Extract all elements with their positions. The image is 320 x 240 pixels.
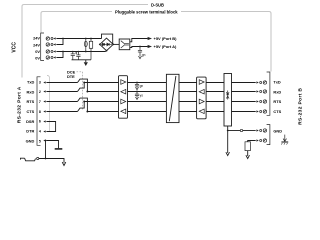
wire +5V Port A output — [130, 47, 148, 48]
switch S1b RTS/CTS crossover — [78, 98, 88, 111]
wire TxD opto to transformer — [128, 82, 167, 84]
wire 0V-2 jumper — [56, 52, 63, 58]
wire bridge to DC/DC — [113, 43, 119, 45]
wire 0V rail — [56, 51, 105, 53]
contact pin 3 — [43, 81, 45, 83]
arrow +5V Port A — [148, 45, 152, 48]
svg-text:gn: gn — [142, 53, 146, 57]
svg-text:8: 8 — [39, 110, 41, 114]
wire RTS transformer to driver — [179, 101, 197, 103]
buffer triangle U3.3 — [199, 99, 204, 104]
earth bar port A — [55, 148, 63, 150]
svg-text:2: 2 — [39, 90, 41, 94]
svg-text:7: 7 — [39, 100, 41, 104]
wire CTS opto to transformer — [128, 111, 167, 113]
contact pin 2 — [43, 90, 45, 92]
wire DSR jumper — [46, 122, 55, 132]
contact arrow GND port B — [256, 129, 258, 131]
node switch junction — [45, 158, 47, 160]
svg-text:GND: GND — [273, 128, 282, 133]
svg-text:D-SUB: D-SUB — [151, 3, 164, 8]
optocoupler block U2 port A — [119, 76, 128, 119]
node switch out TxD — [83, 82, 85, 84]
buffer triangle U2.4 — [121, 109, 126, 114]
wire GND port B from surge block — [228, 130, 256, 132]
wire CTS switch to optocoupler — [87, 111, 118, 113]
wire RTS pin to switch — [46, 101, 77, 103]
contact arrow 24V-2 — [53, 43, 55, 45]
svg-text:RS-232 Port B: RS-232 Port B — [297, 88, 303, 125]
svg-text:5: 5 — [39, 139, 41, 143]
bracket port B ground group — [267, 125, 270, 145]
DC/DC converter U1 — [119, 39, 130, 50]
svg-text:0V: 0V — [35, 56, 40, 61]
driver block U3 port B — [197, 77, 207, 119]
svg-text:RTS: RTS — [273, 99, 281, 104]
wire RxD transformer to driver — [179, 91, 197, 93]
FE arrow below varistor — [246, 155, 250, 158]
svg-text:DTR: DTR — [26, 129, 34, 134]
svg-text:gn: gn — [140, 84, 144, 88]
FE arrow bottom left — [62, 162, 66, 165]
fuse F1 — [84, 39, 87, 52]
terminal TxD port B — [260, 81, 267, 84]
varistor box to FE — [245, 142, 250, 151]
svg-text:4: 4 — [39, 130, 41, 134]
node 24V join — [62, 38, 64, 40]
node bridge bottom vertex — [106, 50, 108, 52]
contact pin 6 — [43, 120, 45, 122]
wire RTS driver to surge block — [206, 101, 224, 103]
contact pin 7 — [43, 100, 45, 102]
shield line port A — [47, 75, 50, 131]
bracket D-SUB port A — [37, 77, 41, 146]
buffer triangle U2.2 — [121, 89, 126, 94]
wire RxD switch to optocoupler — [87, 91, 118, 93]
transformer isolation barrier T1 — [166, 74, 179, 122]
node switch out RTS — [83, 101, 85, 103]
contact arrow 0V-2 — [53, 56, 55, 58]
buffer triangle U3.2 — [199, 89, 204, 94]
buffer triangle U2.1 — [121, 80, 126, 85]
leader line D-SUB — [22, 5, 148, 78]
diode D2 inside bridge — [107, 43, 109, 46]
buffer triangle U3.4 — [199, 109, 204, 114]
svg-text:TxD: TxD — [273, 80, 281, 85]
suppressor symbol inside U4 — [226, 91, 229, 100]
ground arrow power section — [85, 60, 87, 62]
wire RxD opto to transformer — [128, 91, 167, 93]
diode D1 inside bridge — [101, 43, 112, 46]
wire FE terminal port B — [248, 141, 256, 142]
svg-text:+5V (Port B): +5V (Port B) — [154, 36, 178, 41]
node switch out RxD — [86, 91, 88, 93]
terminal RTS port B — [260, 100, 267, 103]
svg-text:yo: yo — [140, 94, 144, 98]
wire TxD pin to switch — [46, 82, 77, 84]
connector circle on GND wire — [240, 129, 242, 131]
buffer triangle U2.3 — [121, 99, 126, 104]
LED RD yellow — [136, 91, 138, 93]
svg-text:DTE: DTE — [67, 74, 75, 79]
surge protection block U4 — [224, 74, 232, 127]
svg-text:DSR: DSR — [26, 119, 34, 124]
switch S1a TxD/RxD crossover — [78, 79, 88, 91]
svg-text:GND: GND — [26, 138, 35, 143]
buffer triangle U3.1 — [199, 80, 204, 85]
node bridge left vertex — [99, 44, 101, 46]
dashed mechanical link DCE/DTE switch — [77, 72, 83, 110]
wire TxD driver to surge block — [206, 82, 224, 84]
bracket power terminal group — [41, 33, 44, 61]
terminal 24V-1 — [46, 37, 53, 40]
wire GND port A — [46, 141, 58, 149]
svg-text:RxD: RxD — [273, 89, 281, 94]
wire FE bar — [72, 59, 92, 61]
svg-text:VCC: VCC — [11, 42, 17, 53]
wire RxD driver to surge block — [206, 91, 224, 93]
capacitor C1 to FE — [71, 52, 75, 60]
LED TD green — [136, 82, 138, 84]
wire RxD surge to terminal — [232, 91, 256, 93]
node C2 top — [78, 51, 80, 53]
wire +5V Port B output — [130, 39, 148, 42]
contact arrow RTS port B — [256, 100, 258, 102]
svg-text:Pluggable screw terminal block: Pluggable screw terminal block — [115, 9, 178, 14]
node switch out CTS — [86, 111, 88, 113]
node resistor top — [90, 38, 92, 40]
wire switch to FE arrow — [39, 159, 64, 163]
node bridge right vertex — [112, 44, 114, 46]
node GND switch tap — [45, 140, 47, 142]
terminal RxD port B — [260, 90, 267, 93]
contact arrow RxD port B — [256, 90, 258, 92]
terminal 0V-2 — [46, 56, 53, 59]
contact arrow CTS port B — [256, 110, 258, 112]
svg-text:0V: 0V — [35, 49, 40, 54]
svg-text:6: 6 — [39, 120, 41, 124]
svg-text:CTS: CTS — [27, 109, 35, 114]
bridge rectifier diamond — [100, 38, 113, 51]
wire RTS switch to optocoupler — [84, 101, 118, 103]
terminal CTS port B — [260, 110, 267, 113]
bracket port B signal group — [267, 72, 270, 115]
node 0V join — [62, 51, 64, 53]
FE symbol next to GND label — [283, 135, 286, 142]
wire GND to switch — [45, 141, 47, 159]
arrow +5V Port B — [148, 37, 152, 40]
FE arrow below surge block — [226, 152, 230, 155]
svg-text:24V: 24V — [33, 36, 40, 41]
svg-text:24V: 24V — [33, 42, 40, 47]
svg-text:+5V (Port A): +5V (Port A) — [154, 44, 178, 49]
node fuse bottom — [85, 51, 87, 53]
svg-text:RxD: RxD — [27, 89, 35, 94]
contact pin 5 — [43, 139, 45, 141]
wire CTS transformer to driver — [179, 111, 197, 113]
contact arrow 0V-1 — [53, 50, 55, 52]
wire TxD surge to terminal — [232, 82, 256, 84]
node surge block drop — [227, 130, 229, 132]
wire TxD transformer to driver — [179, 82, 197, 84]
wire TxD switch to optocoupler — [84, 82, 118, 84]
wire varistor to FE arrow — [247, 151, 249, 156]
leader line pluggable terminal block right — [181, 12, 271, 72]
contact arrow TxD port B — [256, 81, 258, 83]
node C1 top — [72, 51, 74, 53]
wire CTS driver to surge block — [206, 111, 224, 113]
wire surge block to FE arrow — [227, 126, 229, 153]
LED PWR green on +5V line — [139, 46, 141, 48]
wire CTS pin to switch — [46, 111, 77, 113]
resistor R1 — [89, 39, 92, 60]
wire bridge bypass loop — [102, 34, 113, 44]
contact arrow FE port B — [256, 139, 258, 141]
wire CTS surge to terminal — [232, 111, 256, 113]
terminal 24V-2 — [46, 43, 53, 46]
leader line pluggable terminal block left — [41, 12, 112, 33]
terminal 0V-1 — [46, 50, 53, 53]
terminal FE port B — [260, 139, 267, 142]
contact arrow 24V-1 — [53, 37, 55, 39]
switch S2 GND to FE — [21, 157, 39, 160]
svg-text:CTS: CTS — [273, 109, 281, 114]
svg-text:TxD: TxD — [27, 80, 35, 85]
contact pin 4 — [43, 130, 45, 132]
wire 24V rail — [56, 38, 101, 40]
capacitor C2 electrolytic to FE — [75, 52, 80, 60]
svg-text:RTS: RTS — [27, 99, 35, 104]
terminal GND port B — [260, 129, 267, 132]
svg-text:3: 3 — [39, 81, 41, 85]
wire RTS surge to terminal — [232, 101, 256, 103]
svg-text:RS-232 Port A: RS-232 Port A — [17, 86, 23, 123]
wire RTS opto to transformer — [128, 101, 167, 103]
wire RxD pin to switch — [46, 91, 77, 93]
node fuse top — [85, 38, 87, 40]
contact pin 8 — [43, 110, 45, 112]
wire 24V-2 jumper — [56, 39, 63, 45]
